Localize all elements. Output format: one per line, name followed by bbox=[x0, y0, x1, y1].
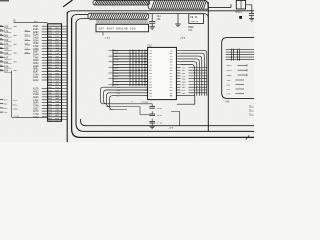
wire bbox=[246, 135, 249, 139]
svg-text:7471: 7471 bbox=[13, 99, 19, 102]
svg-text:122: 122 bbox=[4, 111, 9, 114]
svg-text:8A44: 8A44 bbox=[227, 64, 233, 67]
wire bbox=[25, 48, 31, 49]
pins of IC2 bbox=[144, 49, 181, 97]
svg-text:114: 114 bbox=[188, 29, 193, 32]
svg-text:5C2: 5C2 bbox=[34, 20, 39, 23]
svg-text:000D: 000D bbox=[227, 74, 233, 77]
svg-text:/77: /77 bbox=[180, 36, 186, 40]
connector J1 pin row 8 bbox=[0, 56, 12, 59]
ground bbox=[249, 19, 254, 22]
bus wires IC2 right bbox=[180, 50, 207, 95]
connector J1 pin row 2 bbox=[0, 30, 12, 33]
net label bbox=[225, 101, 230, 104]
wire bbox=[76, 19, 254, 132]
wire bbox=[25, 39, 31, 40]
wire bbox=[151, 123, 153, 126]
connector J1 pin row 7 bbox=[0, 52, 17, 55]
wire bbox=[204, 14, 209, 18]
svg-text:A412: A412 bbox=[33, 79, 39, 82]
net label row 5 bbox=[33, 37, 48, 40]
ground bbox=[180, 36, 186, 40]
svg-text:8011: 8011 bbox=[13, 103, 19, 106]
svg-text:/77: /77 bbox=[105, 36, 111, 40]
connector J1 pin row 10 bbox=[0, 65, 12, 68]
net label row 30 bbox=[33, 113, 48, 116]
svg-text:DA1: DA1 bbox=[4, 34, 9, 37]
ground bbox=[105, 36, 111, 40]
wire bbox=[106, 107, 149, 115]
net label row 2 bbox=[33, 28, 48, 31]
net label row 20 bbox=[33, 79, 48, 82]
connector P2 hatched edge bbox=[148, 0, 208, 9]
connector P3 hatched edge bbox=[88, 13, 149, 19]
connector J1 pin row 1 bbox=[0, 25, 17, 28]
capacitor C104 bbox=[149, 104, 162, 110]
capacitor C114 bbox=[149, 111, 162, 117]
wire bbox=[25, 44, 31, 45]
svg-text:14: 14 bbox=[249, 109, 251, 111]
svg-text:1DD: 1DD bbox=[4, 26, 9, 29]
svg-text:C 10: C 10 bbox=[157, 122, 163, 125]
svg-text:171: 171 bbox=[4, 30, 9, 33]
wires CN1 to board edge bbox=[62, 26, 68, 119]
net label bbox=[131, 94, 174, 104]
pins of U1 top row bbox=[97, 19, 147, 24]
svg-text:OSC1: OSC1 bbox=[236, 11, 243, 14]
net label row 22 bbox=[33, 90, 48, 93]
net label row 8 bbox=[33, 45, 48, 48]
wire bbox=[81, 119, 254, 126]
wire bbox=[171, 112, 180, 126]
wire bbox=[109, 108, 127, 110]
svg-text:2A2: 2A2 bbox=[182, 92, 187, 95]
net label row 31 bbox=[33, 116, 48, 119]
svg-text:2MXAAB: 2MXAAB bbox=[141, 101, 149, 104]
connector J2 pin row 2 bbox=[0, 103, 18, 107]
crystal Y1 bbox=[236, 0, 245, 9]
wire bbox=[177, 14, 179, 24]
wire bbox=[12, 114, 48, 117]
connector P1 hatched edge bbox=[93, 0, 150, 5]
connector J2 pin row 4 bbox=[0, 111, 8, 114]
capacitor C14 bbox=[149, 14, 161, 27]
net label row 3 bbox=[33, 31, 48, 34]
net label row 27 bbox=[33, 104, 48, 107]
node A bbox=[239, 16, 242, 19]
svg-text:14: 14 bbox=[249, 113, 251, 115]
svg-text:7: 7 bbox=[125, 21, 126, 24]
net label row 23 bbox=[33, 93, 48, 96]
svg-text:D28: D28 bbox=[4, 70, 9, 73]
net label row 28 bbox=[33, 107, 48, 110]
connector J2 pin row 1 bbox=[0, 99, 18, 103]
wire bbox=[14, 22, 48, 24]
svg-text:PB 45: PB 45 bbox=[190, 16, 198, 19]
wire bbox=[72, 15, 254, 138]
wire bbox=[25, 52, 31, 53]
net label row 15 bbox=[33, 65, 48, 68]
net label row 16 bbox=[33, 68, 48, 71]
net label C5 bbox=[13, 20, 39, 23]
svg-text:40D: 40D bbox=[4, 48, 9, 51]
svg-text:820: 820 bbox=[4, 99, 9, 102]
net label row 25 bbox=[33, 99, 48, 102]
net label row 7 bbox=[33, 42, 48, 45]
capacitor C124 bbox=[149, 119, 162, 125]
wire bbox=[11, 71, 13, 118]
svg-text:A78: A78 bbox=[4, 65, 9, 68]
svg-text:200148: 200148 bbox=[190, 20, 199, 23]
bus wires to IC2 left bbox=[108, 49, 147, 86]
svg-text:X44: X44 bbox=[225, 101, 230, 104]
svg-text:A7A: A7A bbox=[4, 43, 9, 46]
net label row 18 bbox=[33, 73, 48, 76]
net label row 24 bbox=[33, 96, 48, 99]
ground bbox=[149, 126, 155, 129]
svg-text:D42: D42 bbox=[4, 107, 9, 110]
svg-text:IC2: IC2 bbox=[147, 44, 152, 47]
net label row 6 bbox=[33, 39, 48, 42]
label box PB45 bbox=[189, 14, 204, 24]
svg-text:/77: /77 bbox=[169, 126, 174, 130]
svg-text:211: 211 bbox=[4, 61, 9, 64]
net label row 4 bbox=[33, 34, 48, 37]
bus wires bend down bbox=[101, 86, 148, 109]
wire bbox=[176, 96, 194, 105]
net label row 13 bbox=[33, 59, 48, 62]
wire bbox=[149, 13, 204, 15]
net label row 19 bbox=[33, 76, 48, 79]
ground bbox=[169, 126, 174, 130]
wire bbox=[63, 0, 72, 7]
svg-text:C104: C104 bbox=[157, 107, 163, 110]
svg-text:6A7 40A7 DRV14B 200: 6A7 40A7 DRV14B 200 bbox=[99, 28, 136, 31]
wire bbox=[103, 103, 152, 105]
svg-text:PXA4: PXA4 bbox=[14, 114, 20, 117]
svg-text:48DA: 48DA bbox=[13, 108, 19, 111]
svg-text:7: 7 bbox=[98, 21, 99, 24]
connector J1 pin row 6 bbox=[0, 47, 12, 50]
wire bbox=[102, 32, 104, 36]
ground bbox=[175, 24, 181, 27]
IC U1 bbox=[96, 24, 149, 32]
net label row 17 bbox=[33, 71, 48, 74]
net label row 12 bbox=[33, 56, 48, 59]
net label row 21 bbox=[33, 88, 48, 91]
svg-text:7AD: 7AD bbox=[4, 39, 9, 42]
wire bbox=[207, 2, 209, 131]
net stubs right edge bbox=[249, 105, 254, 115]
wire bbox=[208, 4, 231, 7]
svg-text:C114: C114 bbox=[157, 114, 163, 117]
capacitor C2 bbox=[249, 14, 254, 19]
connector J1 pin row 4 bbox=[0, 39, 12, 42]
net label row 29 bbox=[33, 110, 48, 113]
wire bbox=[25, 35, 31, 36]
net label row 1 bbox=[33, 25, 48, 28]
svg-text:410: 410 bbox=[4, 52, 9, 55]
connector CN1 bbox=[48, 24, 62, 123]
IC IC2 bbox=[147, 44, 176, 99]
connector CN2 wires bbox=[222, 38, 254, 99]
svg-text:7782: 7782 bbox=[33, 116, 39, 119]
net label PWRA bbox=[188, 26, 194, 32]
net label row 10 bbox=[33, 51, 48, 54]
wire bbox=[246, 5, 252, 13]
wire bbox=[25, 30, 31, 31]
svg-text:417: 417 bbox=[4, 56, 9, 59]
net label row 9 bbox=[33, 48, 48, 51]
svg-text:2: 2 bbox=[105, 21, 106, 24]
net label row 26 bbox=[33, 102, 48, 105]
wire bbox=[0, 0, 9, 2]
net label row 14 bbox=[33, 62, 48, 65]
svg-text:082: 082 bbox=[4, 103, 9, 106]
connector J1 pin row 11 bbox=[0, 70, 17, 73]
connector J1 pin row 3 bbox=[0, 34, 17, 37]
connector CN2 labels bbox=[227, 64, 248, 95]
svg-text:1AF: 1AF bbox=[157, 18, 162, 21]
label OSC1 bbox=[236, 11, 243, 14]
wire bbox=[67, 11, 254, 142]
connector J2 pin row 3 bbox=[0, 107, 18, 111]
connector J1 pin row 5 bbox=[0, 43, 17, 46]
connector J1 pin row 9 bbox=[0, 61, 17, 64]
svg-text:14: 14 bbox=[249, 105, 251, 107]
ground bbox=[149, 27, 155, 30]
net label row 11 bbox=[33, 54, 48, 57]
svg-text:8D20: 8D20 bbox=[227, 69, 233, 72]
